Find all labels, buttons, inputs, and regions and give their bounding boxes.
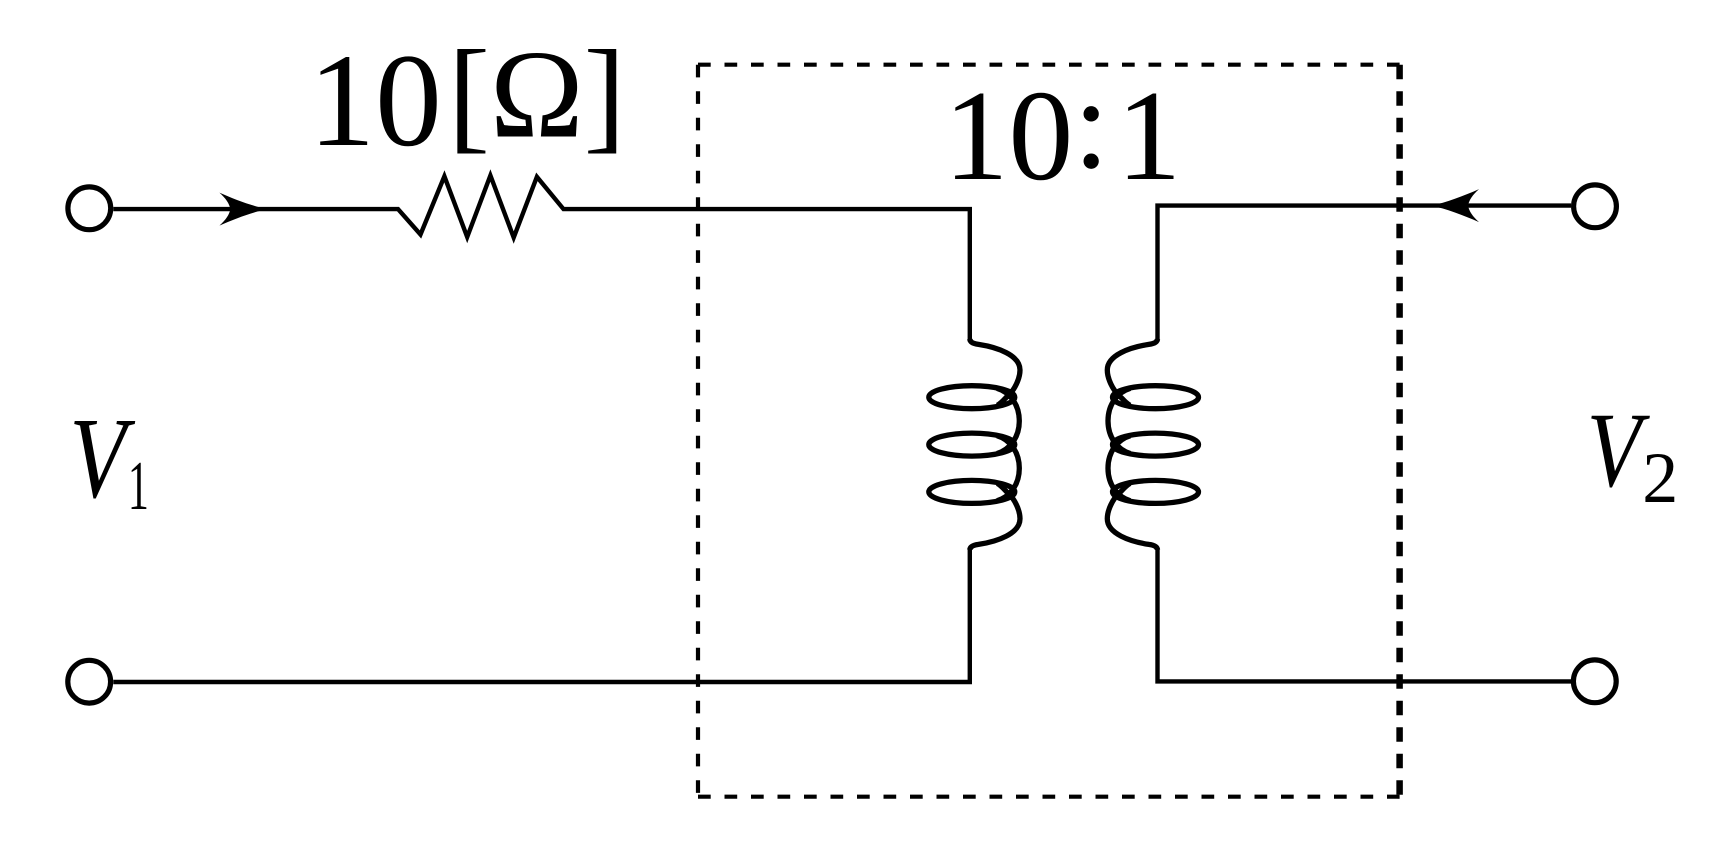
wire bottom-right (secondary) <box>1158 550 1572 682</box>
current arrow into port 1 (points right) <box>219 193 267 226</box>
secondary coil L2 loop 2 <box>1113 433 1199 456</box>
wire top-left with resistor zigzag and primary vertical drop <box>113 176 970 340</box>
svg-text:V: V <box>1587 391 1650 509</box>
terminal top-left <box>68 187 111 230</box>
primary coil L1 loop 1 <box>929 386 1015 409</box>
transformer dashed boundary box (top edge) <box>698 63 1400 67</box>
primary coil L1 loop 3 <box>929 480 1015 503</box>
primary coil L1 bump 3 <box>997 436 1019 501</box>
terminal top-right <box>1574 185 1617 228</box>
svg-text:10: 10 <box>944 65 1074 208</box>
primary coil L1 bump 4 (bottom) <box>970 483 1020 549</box>
primary coil L1 loop 2 <box>929 433 1015 456</box>
terminal bottom-left <box>68 660 111 703</box>
terminal bottom-right <box>1573 660 1616 703</box>
transformer dashed boundary box (bottom edge) <box>698 795 1400 799</box>
svg-text:1: 1 <box>1117 65 1182 208</box>
wire bottom-left <box>113 550 970 683</box>
svg-text:1: 1 <box>128 448 149 524</box>
svg-text:2: 2 <box>1642 438 1678 518</box>
current arrow into port 2 (points left) <box>1431 189 1479 222</box>
svg-text::: : <box>1073 53 1109 196</box>
primary coil L1 bump 1 (top) <box>970 339 1020 405</box>
secondary coil L2 loop 3 <box>1113 480 1199 503</box>
port 1 voltage label V1 <box>69 395 148 525</box>
secondary coil L2 bump 1 (top) <box>1107 339 1157 405</box>
secondary coil L2 bump 4 (bottom) <box>1107 483 1157 549</box>
transformer dashed boundary box (right edge, thick) <box>1396 65 1403 797</box>
svg-text:V: V <box>69 395 135 522</box>
transformer dashed boundary box (left edge) <box>696 65 700 797</box>
svg-text:10: 10 <box>309 26 442 174</box>
port 2 voltage label V2 <box>1587 391 1679 517</box>
svg-text:[Ω]: [Ω] <box>448 26 626 165</box>
wire top-right (secondary) <box>1158 206 1572 340</box>
primary coil L1 bump 2 <box>997 388 1019 453</box>
secondary coil L2 bump 3 <box>1108 436 1130 501</box>
secondary coil L2 loop 1 <box>1113 386 1199 409</box>
secondary coil L2 bump 2 <box>1108 388 1130 453</box>
